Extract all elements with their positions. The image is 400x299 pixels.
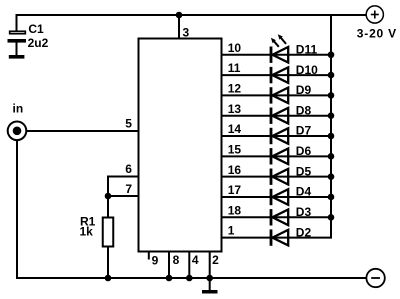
wire pin6/pin7 to R1 — [107, 177, 109, 218]
junction dot D9 anode/rail — [328, 92, 335, 99]
svg-text:9: 9 — [152, 253, 159, 267]
capacitor C1 — [8, 31, 27, 55]
svg-text:D6: D6 — [296, 144, 312, 158]
svg-text:12: 12 — [228, 82, 242, 96]
wire pin 7 — [107, 195, 138, 197]
svg-text:16: 16 — [228, 163, 242, 177]
junction dot D7 anode/rail — [328, 133, 335, 140]
svg-text:D10: D10 — [296, 63, 318, 77]
wire pin 2 — [209, 253, 211, 279]
svg-text:D3: D3 — [296, 205, 312, 219]
LED D6 — [270, 148, 289, 164]
junction dot pin4/bottom rail — [186, 275, 193, 282]
svg-text:D2: D2 — [296, 225, 312, 239]
wire pin 12 to LED D9 row — [223, 94, 333, 96]
op-amp U1 (LED driver IC body) — [139, 39, 222, 252]
wire pin 6 — [107, 176, 138, 178]
wire pin 3 — [178, 15, 180, 38]
svg-text:D7: D7 — [296, 124, 312, 138]
LED D4 — [270, 189, 289, 205]
wire right LED anode rail — [330, 15, 332, 238]
wire R1 bottom lead — [107, 247, 109, 278]
wire pin 13 to LED D8 row — [223, 115, 333, 117]
wire pin 1 to LED D2 row — [223, 237, 333, 239]
junction dot D11 anode/rail — [328, 51, 335, 58]
junction dot D6 anode/rail — [328, 153, 335, 160]
svg-text:1k: 1k — [80, 225, 94, 239]
junction dot R1/bottom rail — [105, 275, 112, 282]
svg-text:3: 3 — [183, 26, 190, 40]
junction dot pin3/top rail — [176, 12, 183, 19]
LED D8 — [270, 108, 289, 124]
terminal + (positive supply) — [366, 6, 383, 23]
svg-text:5: 5 — [125, 116, 132, 130]
LED D5 — [270, 169, 289, 185]
junction dot pin8/bottom rail — [166, 275, 173, 282]
svg-text:4: 4 — [192, 253, 199, 267]
wire top rail — [16, 14, 367, 16]
svg-text:10: 10 — [228, 41, 242, 55]
svg-text:D8: D8 — [296, 103, 312, 117]
wire pin 10 to LED D11 row — [223, 54, 333, 56]
svg-text:C1: C1 — [28, 22, 44, 36]
ground (under C1) — [9, 55, 25, 59]
junction dot D8 anode/rail — [328, 112, 335, 119]
LED D9 — [270, 87, 289, 103]
svg-text:15: 15 — [228, 142, 242, 156]
wire pin 9 stub — [148, 253, 150, 260]
wire pin 5 — [26, 130, 137, 132]
svg-text:2: 2 — [212, 253, 219, 267]
svg-text:D11: D11 — [296, 43, 318, 57]
LED D2 — [270, 229, 289, 245]
svg-text:13: 13 — [228, 102, 242, 116]
node in (input terminal) — [8, 122, 27, 141]
LED D3 — [270, 209, 289, 225]
LED D11 — [270, 47, 289, 63]
svg-text:8: 8 — [173, 253, 180, 267]
junction dot D4 anode/rail — [328, 194, 335, 201]
wire C1 top lead — [16, 15, 18, 31]
svg-text:18: 18 — [228, 203, 242, 217]
LED D7 — [270, 128, 289, 144]
svg-text:3-20 V: 3-20 V — [357, 26, 397, 40]
junction dot D10 anode/rail — [328, 72, 335, 79]
wire ground stem — [209, 278, 211, 290]
wire pin 15 to LED D6 row — [223, 155, 333, 157]
junction dot D3 anode/rail — [328, 214, 335, 221]
svg-text:11: 11 — [228, 61, 241, 75]
wire pin 4 — [188, 253, 190, 279]
svg-text:14: 14 — [228, 122, 242, 136]
resistor R1 — [103, 218, 114, 247]
svg-text:D9: D9 — [296, 83, 312, 97]
LED D10 — [270, 67, 289, 83]
svg-text:6: 6 — [125, 162, 132, 176]
svg-text:D4: D4 — [296, 185, 312, 199]
terminal - (negative supply) — [366, 269, 384, 287]
svg-text:1: 1 — [228, 224, 235, 238]
wire pin 18 to LED D3 row — [223, 216, 333, 218]
wire pin 16 to LED D5 row — [223, 176, 333, 178]
wire pin 14 to LED D7 row — [223, 135, 333, 137]
wire pin 11 to LED D10 row — [223, 74, 333, 76]
svg-text:2u2: 2u2 — [28, 36, 49, 50]
svg-text:in: in — [13, 102, 24, 116]
wire pin 8 — [168, 253, 170, 279]
wire left rail (in to bottom rail) — [16, 140, 18, 278]
wire pin 17 to LED D4 row — [223, 196, 333, 198]
svg-text:D5: D5 — [296, 164, 312, 178]
wire bottom rail — [16, 277, 366, 279]
svg-text:17: 17 — [228, 183, 242, 197]
junction dot pin2/bottom rail — [206, 275, 213, 282]
junction dot pin7/R1 — [105, 193, 112, 200]
ground (bottom) — [202, 290, 218, 294]
LED D11 light emission arrows — [271, 34, 286, 47]
svg-text:7: 7 — [125, 182, 132, 196]
junction dot D5 anode/rail — [328, 173, 335, 180]
